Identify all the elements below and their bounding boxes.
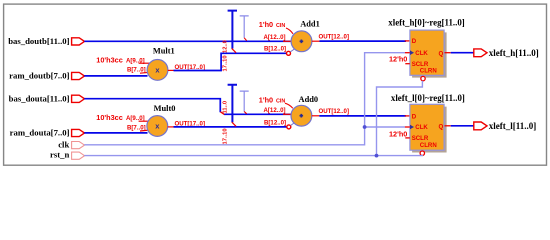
svg-text:17..10: 17..10: [222, 128, 228, 144]
svg-text:ram_douta[7..0]: ram_douta[7..0]: [10, 128, 70, 138]
svg-text:CIN: CIN: [276, 23, 285, 29]
wire bas_douta bus to Add0 A: [84, 99, 291, 115]
wire diagonal T to Add0 A row: [244, 112, 247, 114]
svg-text:bas_douta[11..0]: bas_douta[11..0]: [9, 93, 70, 103]
svg-text:ram_doutb[7..0]: ram_doutb[7..0]: [9, 71, 69, 81]
wire diagonal ring to Add1: [290, 49, 294, 52]
pin stub CLK of reg xleft_h: [405, 52, 410, 54]
inversion bubble CLRN of reg xleft_l: [420, 151, 424, 155]
svg-text:1'h0: 1'h0: [259, 95, 273, 104]
svg-text:xleft_h[0]~reg[11..0]: xleft_h[0]~reg[11..0]: [388, 18, 464, 28]
adder Add1: [291, 31, 312, 52]
clock triangle of reg xleft_h: [410, 50, 414, 55]
wire Mult1 OUT to Add1 B: [174, 53, 287, 70]
svg-text:Q: Q: [439, 50, 444, 57]
output port xleft_h[11..0]: [474, 49, 487, 57]
svg-text:Add1: Add1: [300, 20, 320, 29]
wire clk net: [84, 53, 405, 145]
pin stub D of reg xleft_h: [405, 40, 410, 42]
wire rst_n net: [84, 154, 422, 157]
register xleft_h shadow: [412, 32, 447, 77]
svg-text:12..0: 12..0: [222, 40, 228, 53]
svg-text:11..0: 11..0: [223, 101, 229, 114]
leader line CIN to Add1: [286, 28, 293, 34]
wire diagonal T to Add1 B row: [232, 48, 236, 52]
input port clk: [72, 142, 85, 149]
wire diagonal T to Add1 A row: [244, 38, 247, 41]
constant connector T (Add0 A): [240, 91, 249, 112]
leader line CIN to Add0: [285, 103, 293, 108]
wire Add1 OUT to register D: [320, 40, 407, 42]
svg-text:B[12..0]: B[12..0]: [264, 119, 286, 126]
svg-text:Q: Q: [439, 124, 444, 131]
pin stub D of reg xleft_l: [405, 115, 410, 117]
svg-text:D: D: [412, 113, 417, 120]
wire bas_doutb bus to Add1 A: [84, 40, 291, 42]
svg-text:xleft_h[11..0]: xleft_h[11..0]: [489, 48, 539, 58]
pin stub A of Mult0: [139, 120, 150, 122]
svg-text:1'h0: 1'h0: [259, 20, 273, 29]
wire diagonal T to Add0 B row: [232, 122, 236, 126]
register xleft_l[0]~reg[11..0]: [410, 104, 444, 150]
svg-text:OUT[12..0]: OUT[12..0]: [319, 33, 349, 40]
wire clk branch to reg xleft_l: [365, 126, 405, 128]
pin stub OUT of Add0: [312, 115, 320, 117]
wire rst_n branch to reg xleft_h CLRN: [377, 81, 423, 156]
svg-text:D: D: [412, 38, 417, 45]
pin stub A of Add1: [283, 40, 291, 42]
svg-text:CLRN: CLRN: [420, 142, 437, 149]
output port xleft_l[11..0]: [474, 122, 487, 130]
constant connector T (Add1 A): [240, 16, 249, 38]
junction dot clk: [363, 125, 367, 129]
svg-text:A[12..0]: A[12..0]: [264, 107, 286, 114]
svg-text:xleft_l[0]~reg[11..0]: xleft_l[0]~reg[11..0]: [391, 93, 465, 103]
svg-text:B[12..0]: B[12..0]: [264, 46, 286, 53]
bus group connector T (Add1 B): [228, 11, 237, 49]
pin stub Q of reg xleft_l: [445, 125, 451, 127]
pin stub A of Add0: [283, 113, 291, 115]
input port ram_douta[7..0]: [72, 129, 85, 136]
svg-text:A[12..0]: A[12..0]: [264, 34, 286, 41]
pin stub CLK of reg xleft_l: [405, 126, 410, 128]
input port rst_n: [72, 152, 85, 159]
inversion bubble CLRN of reg xleft_h: [421, 76, 425, 80]
svg-text:rst_n: rst_n: [50, 149, 69, 159]
pin stub SCLR of reg xleft_l: [405, 137, 410, 139]
wire Q to output port xleft_l: [451, 125, 474, 127]
junction dot rst_n: [375, 154, 379, 158]
pin stub OUT of Add1: [312, 40, 320, 42]
pin stub Q of reg xleft_h: [445, 52, 451, 54]
pin stub B of Mult0: [140, 130, 150, 131]
svg-text:clk: clk: [58, 140, 69, 150]
adder Add0: [291, 105, 312, 126]
svg-text:CIN: CIN: [276, 99, 285, 105]
junction ring Add1 B: [287, 51, 291, 55]
schematic frame: [4, 4, 547, 165]
bus group connector T (Add0 B): [228, 85, 237, 123]
register xleft_h[0]~reg[11..0]: [410, 30, 444, 75]
svg-text:CLRN: CLRN: [420, 68, 437, 75]
svg-text:CLK: CLK: [415, 124, 428, 131]
wire Q to output port xleft_h: [451, 52, 474, 54]
svg-text:10'h3cc: 10'h3cc: [96, 113, 122, 122]
svg-text:CLK: CLK: [415, 50, 428, 57]
junction ring Add0 B: [287, 125, 291, 129]
svg-text:17..10: 17..10: [222, 55, 228, 71]
wire Mult0 OUT to Add0 B: [174, 126, 287, 128]
register xleft_l shadow: [412, 107, 447, 153]
multiplier Mult0: [147, 116, 168, 137]
pin stub SCLR of reg xleft_h: [405, 63, 410, 65]
svg-text:10'h3cc: 10'h3cc: [96, 56, 122, 65]
svg-text:Mult0: Mult0: [154, 104, 176, 113]
multiplier Mult1: [147, 60, 168, 81]
svg-text:OUT[12..0]: OUT[12..0]: [319, 108, 349, 115]
pin stub B of Mult1: [140, 71, 150, 74]
svg-text:xleft_l[11..0]: xleft_l[11..0]: [489, 121, 537, 131]
wire Add0 OUT to register D: [319, 115, 406, 117]
input port bas_douta[11..0]: [72, 95, 85, 102]
svg-text:bas_doutb[11..0]: bas_doutb[11..0]: [8, 36, 69, 46]
pin stub A of Mult1: [139, 62, 150, 64]
svg-text:12'h0: 12'h0: [389, 130, 407, 139]
svg-text:Add0: Add0: [299, 95, 319, 104]
svg-text:12'h0: 12'h0: [389, 55, 407, 64]
pin stub OUT of Mult1: [168, 69, 174, 71]
clock triangle of reg xleft_l: [410, 125, 414, 130]
input port ram_doutb[7..0]: [72, 72, 85, 79]
wire ram_doutb bus to Mult1 B: [84, 75, 147, 77]
svg-text:Mult1: Mult1: [153, 47, 175, 56]
wire diagonal bas_douta to Add0 A row: [220, 112, 224, 115]
wire diagonal ring to Add0: [291, 123, 295, 126]
wire ram_douta bus to Mult0 B: [84, 132, 147, 134]
pin stub OUT of Mult0: [168, 126, 174, 128]
input port bas_doutb[11..0]: [72, 38, 85, 45]
